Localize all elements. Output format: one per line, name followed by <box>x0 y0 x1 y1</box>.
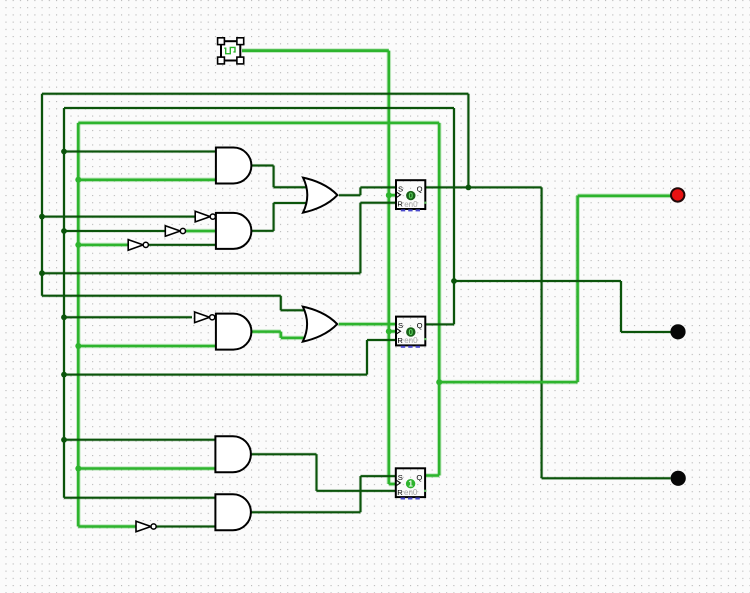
OR gate O1 <box>303 178 337 213</box>
svg-text:S: S <box>398 473 403 482</box>
wire H NOT-C input <box>78 243 128 248</box>
wire H NOT-E input <box>78 524 136 529</box>
svg-text:Q: Q <box>416 473 422 482</box>
junction J11 <box>75 242 81 248</box>
wire H OR1 output <box>339 194 360 197</box>
svg-text:S: S <box>398 185 403 194</box>
wire H AND1 output <box>251 164 273 167</box>
junction J5 <box>61 314 67 320</box>
wire H to black pin 1 a <box>454 279 621 282</box>
wire H FF3 R input <box>317 489 396 492</box>
wire H clock to column <box>242 48 389 53</box>
AND gate A3 <box>216 314 252 350</box>
wire H feedback row 374 <box>64 373 367 376</box>
AND gate A1 <box>216 148 252 184</box>
wire H AND4 output <box>251 453 316 456</box>
svg-text:en0: en0 <box>404 336 418 345</box>
wire H FF1 Q output <box>425 186 541 189</box>
NOT gate N3 <box>128 240 148 251</box>
wire H NOT-A input <box>42 215 195 218</box>
wire H to black pin 1 b <box>621 330 671 333</box>
wire H top feedback C <box>78 121 439 126</box>
wire H AND3 output <box>251 329 280 334</box>
wire H FF2 clock stub <box>389 329 396 334</box>
wire H feedback row 296 <box>42 294 281 297</box>
wire H NOT-E output <box>156 525 215 528</box>
wire H red feed b <box>578 194 671 199</box>
SR flip-flop U3 (state 1) <box>396 468 427 499</box>
wire V18 red pin column <box>575 196 580 382</box>
wire H AND4 input 1 <box>64 438 215 441</box>
svg-text:Q: Q <box>417 321 423 330</box>
svg-text:0: 0 <box>409 192 414 201</box>
junction J3 <box>61 228 67 234</box>
junction J6 <box>61 372 67 378</box>
wire V6 OR1 out jog <box>359 187 362 195</box>
wire H NOT-C output <box>148 243 216 246</box>
wire H top feedback A <box>42 92 468 95</box>
svg-text:R: R <box>397 336 403 345</box>
svg-text:R: R <box>397 488 403 497</box>
junction J4 <box>39 270 45 276</box>
wire H OR1 input 1 <box>274 186 307 189</box>
output pin P1 (ON) <box>671 188 684 201</box>
svg-text:R: R <box>397 200 403 209</box>
wire V2 second feedback column <box>62 108 65 498</box>
junction J8 <box>466 185 472 191</box>
NOT gate N5 <box>136 521 156 532</box>
wire V14 Q3 feedback column <box>437 123 442 476</box>
wire V1 left feedback column <box>40 94 43 296</box>
wire V12 AND5 to FF3 S rise <box>359 476 362 512</box>
wire H FF3 S input <box>361 474 396 477</box>
output pin P3 (OFF) <box>671 471 686 486</box>
wire V13 clock column <box>387 51 392 484</box>
SR flip-flop U1 (state 0) <box>396 180 427 211</box>
AND gate A4 <box>215 436 251 472</box>
svg-text:1: 1 <box>408 480 413 489</box>
wire H FF1 R input <box>360 201 396 204</box>
svg-text:0: 0 <box>409 328 414 337</box>
svg-text:Q: Q <box>417 185 423 194</box>
svg-text:S: S <box>398 321 403 330</box>
wire H FF1 S input <box>360 186 396 189</box>
wire H AND5 output <box>251 511 360 514</box>
junction J9 <box>451 278 457 284</box>
wire H AND4 input 3 <box>78 466 215 471</box>
wire H FF3 clock stub <box>389 482 396 487</box>
SR flip-flop U2 (state 0) <box>396 317 427 348</box>
wire H OR1 input 2 <box>274 201 307 204</box>
wire H AND1 input 3 <box>78 178 216 183</box>
wire H OR2 out to FF2 S <box>339 322 396 327</box>
wire V5 AND2 to OR1 jog <box>272 203 275 231</box>
AND gate A2 <box>216 213 252 249</box>
wire V9 AND3 out jog <box>279 332 284 338</box>
wire V17 FF1 Q drop to pin <box>540 187 543 478</box>
output pin P2 (OFF) <box>670 324 685 339</box>
wire H AND5 input 1 <box>64 496 215 499</box>
wire H FF1 clock stub <box>389 193 396 198</box>
OR gate O2 <box>303 307 337 342</box>
wire V11 AND4 to FF3 R drop <box>315 454 318 491</box>
junction J14 <box>386 192 392 198</box>
wire H OR2 input 1 <box>281 309 307 312</box>
NOT gate N2 <box>165 226 185 237</box>
wire V7 FF1 R feedback drop <box>359 203 362 273</box>
wire H AND2 output <box>251 229 273 232</box>
wire H FF2 Q output <box>425 323 454 326</box>
wire V8 OR2 top input jog <box>279 296 282 311</box>
junction J16 <box>436 379 442 385</box>
clock CLK1 (selected) <box>218 38 244 64</box>
junction J2 <box>39 214 45 220</box>
wire V19 black pin 1 jog <box>619 281 622 332</box>
NOT gate N4 <box>195 312 215 323</box>
wire H NOT-B output <box>186 229 216 234</box>
wire V4 AND1 to OR1 jog <box>272 166 275 188</box>
junction J13 <box>75 466 81 472</box>
wire H AND1 input 1 <box>64 150 216 153</box>
wire H to black pin 2 <box>542 477 671 480</box>
NOT gate N1 <box>195 211 215 222</box>
wire H NOT-D input <box>64 316 192 319</box>
svg-text:en0: en0 <box>404 200 418 209</box>
wire H AND3 input 3 <box>78 344 216 349</box>
wire H feedback row 273 <box>42 272 360 275</box>
AND gate A5 <box>215 494 251 530</box>
junction J1 <box>61 149 67 155</box>
wire H NOT-B input <box>64 229 165 232</box>
junction J10 <box>75 177 81 183</box>
svg-text:en0: en0 <box>404 488 418 497</box>
wire H top feedback B <box>64 106 454 109</box>
junction J15 <box>386 328 392 334</box>
wire V15 FF2 Q rise <box>452 108 455 324</box>
junction J7 <box>61 437 67 443</box>
junction J12 <box>75 343 81 349</box>
wire V16 top feedback drop <box>467 94 470 188</box>
wire H FF3 Q output <box>425 473 439 478</box>
wire H OR2 input 2 <box>281 336 307 341</box>
wire H red feed a <box>439 380 577 385</box>
wire V10 FF2 R feedback drop <box>365 340 368 375</box>
wire H FF2 R input <box>367 338 396 341</box>
wire V3 third feedback column <box>76 123 81 527</box>
